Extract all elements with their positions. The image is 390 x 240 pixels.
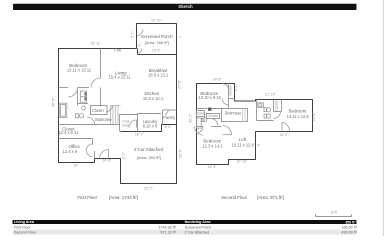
svg-text:Clos.: Clos.: [122, 123, 130, 127]
fixture: toilet right bath: [264, 108, 267, 112]
door arc: porch screen door: [137, 30, 143, 36]
svg-text:Pantry: Pantry: [163, 115, 176, 120]
svg-text:10.11 x 12.8: 10.11 x 12.8: [232, 143, 255, 148]
svg-text:32' 0": 32' 0": [188, 113, 192, 122]
svg-text:Loft: Loft: [239, 137, 247, 142]
svg-text:12.4 x 6.11: 12.4 x 6.11: [58, 130, 79, 135]
svg-text:[Area: 971 ft²]: [Area: 971 ft²]: [257, 195, 284, 200]
svg-text:15.5 x 10.1: 15.5 x 10.1: [143, 96, 164, 101]
door arc: loft door: [223, 126, 232, 135]
svg-text:15.5 x 13.1: 15.5 x 13.1: [148, 72, 169, 77]
wall: closet R right: [280, 100, 284, 112]
wall: bath closet 1: [197, 111, 205, 117]
door arc: office double doors: [86, 144, 92, 150]
svg-text:Bedroom: Bedroom: [69, 63, 87, 68]
wall: closet TL left: [227, 84, 231, 109]
svg-text:4' 1": 4' 1": [234, 83, 238, 91]
svg-text:8.10 x 6: 8.10 x 6: [143, 124, 158, 129]
svg-text:Second Floor: Second Floor: [14, 231, 37, 235]
svg-text:21' 10": 21' 10": [265, 92, 276, 96]
svg-text:22' 2": 22' 2": [280, 133, 289, 137]
svg-text:[Area: 493 ft²]: [Area: 493 ft²]: [137, 155, 161, 160]
table header bar: [13, 220, 357, 224]
door arc: hall TL door: [222, 99, 228, 105]
svg-text:22' 2": 22' 2": [144, 186, 153, 190]
door arc: bedroom BL door: [195, 127, 204, 136]
door arc: bath2 door: [197, 127, 203, 133]
door arc: bedroom R door: [282, 122, 290, 132]
svg-text:Closet: Closet: [229, 86, 233, 96]
svg-text:14' 8": 14' 8": [213, 78, 222, 82]
svg-text:Closet: Closet: [208, 114, 218, 118]
svg-text:Sketch: Sketch: [178, 4, 193, 9]
door arc: living to porch door: [138, 49, 143, 54]
svg-text:45' 5": 45' 5": [52, 97, 56, 106]
svg-text:2': 2': [138, 43, 141, 47]
svg-text:659 ft²: 659 ft²: [346, 220, 357, 224]
door arc: coat closet: [129, 120, 137, 128]
wall: bedroom bottom right part: [78, 86, 90, 90]
wall: porch left lower stub: [136, 49, 140, 55]
staircase treads first floor: [111, 106, 121, 125]
svg-text:2 Car Attached: 2 Car Attached: [134, 147, 164, 152]
room labels second floor: [196, 86, 310, 149]
wall: laundry left: [136, 114, 140, 132]
fixture: flue dark box: [208, 108, 211, 111]
svg-text:27' 8": 27' 8": [177, 79, 181, 88]
svg-text:[Area: 166 ft²]: [Area: 166 ft²]: [145, 40, 169, 45]
svg-text:12.3 x 14.2: 12.3 x 14.2: [202, 143, 223, 148]
fixture: toilet bath1: [76, 114, 79, 118]
svg-text:Bedroom: Bedroom: [203, 138, 221, 143]
wall: right bath left: [255, 100, 259, 121]
fixture: shower stall on left wall: [59, 103, 67, 117]
dimension labels second floor: [188, 78, 316, 169]
fixtures first floor: [59, 30, 168, 159]
wall: coat closet top: [120, 113, 138, 117]
wall: bath bottom left: [197, 125, 204, 129]
svg-text:Screened Porch: Screened Porch: [141, 34, 173, 39]
wall: bedroom TL bottom left: [197, 107, 208, 111]
wall: bath south: [78, 102, 89, 106]
svg-text:2 Car Attached: 2 Car Attached: [185, 231, 209, 235]
wall: hall bottom: [59, 123, 120, 127]
svg-text:9' 7": 9' 7": [130, 30, 134, 38]
svg-text:Bedroom: Bedroom: [289, 109, 307, 114]
svg-text:13.11 x 13.11: 13.11 x 13.11: [67, 67, 92, 72]
door arc: closet R doors: [274, 112, 281, 119]
door arc: closet TL door: [222, 84, 228, 90]
table rows: [14, 225, 358, 234]
svg-text:1743.82 ft²: 1743.82 ft²: [158, 225, 176, 229]
staircase treads 2F: [243, 109, 246, 122]
wall: bath closet 2: [207, 114, 220, 119]
staircase treads: [111, 106, 121, 125]
wall: staircase box: [222, 109, 248, 122]
interior walls first floor: [59, 49, 177, 159]
svg-text:23' 4": 23' 4": [179, 148, 183, 157]
svg-text:5': 5': [257, 143, 260, 147]
svg-text:Staircase: Staircase: [95, 117, 113, 122]
svg-text:Closet: Closet: [196, 112, 206, 116]
svg-text:14 ft: 14 ft: [330, 210, 337, 214]
svg-text:First Floor: First Floor: [77, 195, 97, 200]
svg-text:Second Floor: Second Floor: [221, 195, 248, 200]
wall: closet TL bottom: [229, 97, 235, 101]
scale ruler: [316, 214, 352, 216]
wall: right bath bottom: [257, 119, 274, 123]
wall: pantry top: [163, 108, 177, 112]
wall: closet room box: [91, 106, 108, 115]
fixture: sink right bath: [264, 114, 267, 118]
svg-text:493.00 ft²: 493.00 ft²: [341, 231, 357, 235]
svg-text:32' 11": 32' 11": [91, 41, 102, 45]
wall: closet R bottom: [274, 110, 282, 114]
svg-text:5' 2": 5' 2": [122, 151, 126, 159]
wall: closet R left: [272, 100, 276, 112]
wall: laundry top: [138, 112, 162, 116]
svg-text:13.10 x 9.10: 13.10 x 9.10: [198, 95, 221, 100]
wall: bedroom/living divider upper: [99, 49, 103, 79]
svg-text:12.4 x 9: 12.4 x 9: [63, 149, 78, 154]
svg-text:16' 7": 16' 7": [135, 133, 144, 137]
svg-text:Nonliving Area: Nonliving Area: [185, 220, 212, 224]
svg-text:15.4 x 22.11: 15.4 x 22.11: [108, 75, 131, 80]
wall: bedroom TL bottom right: [212, 107, 229, 111]
wall: pantry left: [161, 110, 165, 125]
svg-text:[Area: 1743 ft²]: [Area: 1743 ft²]: [109, 195, 138, 200]
svg-text:Closet: Closet: [92, 108, 104, 113]
svg-text:Closet: Closet: [274, 101, 278, 111]
door arc: hall small door: [211, 119, 217, 125]
svg-text:12' 4": 12' 4": [312, 112, 316, 121]
wall: first floor exterior outline: [59, 24, 177, 184]
svg-text:10' 10": 10' 10": [236, 160, 247, 164]
door arc: closet box door: [106, 106, 112, 112]
page border right: [382, 0, 385, 236]
wall: office right lower: [93, 151, 97, 159]
svg-text:7': 7': [179, 36, 182, 40]
door arc: bedroom hall door: [68, 88, 78, 98]
wall: bedroom bottom left part: [59, 86, 69, 90]
wall: bedroom/living divider lower: [99, 88, 103, 106]
svg-text:Kitchen: Kitchen: [144, 91, 159, 96]
svg-text:4' 2": 4' 2": [165, 125, 173, 129]
svg-text:Living Area: Living Area: [14, 220, 35, 224]
room labels first floor: [58, 34, 176, 160]
svg-text:15' 5": 15' 5": [152, 48, 161, 52]
wall: porch bottom: [138, 53, 177, 57]
fixture: tub bath2: [197, 118, 202, 128]
fixtures second floor: [195, 84, 290, 135]
svg-text:Laundry: Laundry: [143, 119, 159, 124]
top header bar: [13, 4, 357, 10]
svg-text:15' 10": 15' 10": [151, 18, 162, 22]
svg-text:Staircase: Staircase: [224, 110, 242, 115]
fixture: pantry door leaf: [165, 111, 169, 116]
wall: garage top with jog: [121, 125, 177, 132]
table row 2 shading: [13, 230, 357, 235]
svg-text:Office: Office: [69, 144, 81, 149]
fixture: vanity right bath: [257, 103, 263, 108]
svg-text:14': 14': [73, 163, 78, 167]
door arc: rear entry door: [100, 150, 109, 159]
fixture: sink bath1: [82, 106, 86, 110]
fixture: toilet bath2: [203, 118, 207, 122]
wall: office right upper: [91, 139, 95, 145]
svg-text:971.33 ft²: 971.33 ft²: [160, 231, 176, 235]
svg-text:13.11 x 12.9: 13.11 x 12.9: [286, 114, 309, 119]
svg-text:First Floor: First Floor: [14, 225, 31, 229]
svg-text:Screened Porch: Screened Porch: [185, 225, 211, 229]
interior walls second floor: [197, 84, 282, 127]
svg-text:166.00 ft²: 166.00 ft²: [341, 225, 357, 229]
door arc: bedroom entry door: [91, 78, 101, 88]
svg-text:Coat: Coat: [122, 119, 129, 123]
svg-text:14' 3": 14' 3": [207, 165, 216, 169]
wall: second floor exterior outline: [197, 84, 313, 165]
svg-text:10' 8": 10' 8": [102, 158, 111, 162]
dimension labels first floor: [52, 18, 183, 190]
wall: coat closet left: [118, 115, 122, 132]
svg-text:Fire: Fire: [114, 48, 122, 53]
wall: bath bottom right: [211, 125, 222, 129]
wall: closet/office divider: [59, 137, 93, 141]
fixture: vanity cabinet: [80, 91, 86, 102]
wall: bath/hall divider: [76, 88, 80, 106]
door arc: hall door at stair: [87, 117, 95, 125]
